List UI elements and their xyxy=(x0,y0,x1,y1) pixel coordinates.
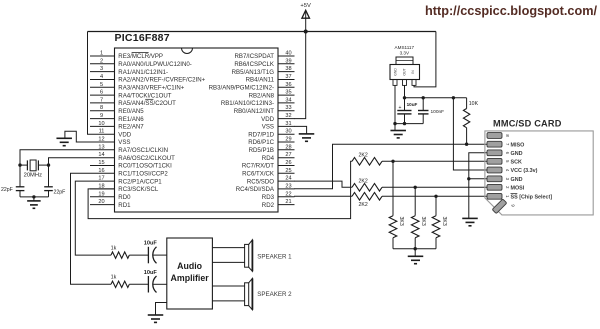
wire OSC1 pin 13 to crystal xyxy=(20,150,90,165)
svg-text:9: 9 xyxy=(511,204,516,207)
svg-text:39: 39 xyxy=(285,58,291,64)
svg-text:VDD: VDD xyxy=(118,131,131,138)
svg-text:2K2: 2K2 xyxy=(359,178,368,184)
svg-text:RC2/P1A/CCP1: RC2/P1A/CCP1 xyxy=(118,178,162,185)
U1 pin 30 (RD7/P1D) xyxy=(248,129,294,139)
U1 pin 36 (RB3/AN9/PGM/C12IN2-) xyxy=(209,82,295,92)
junction MOSI divider xyxy=(414,186,417,189)
svg-text:GND: GND xyxy=(394,68,398,76)
wire regulator OUT (3.3V node) xyxy=(404,85,406,110)
svg-text:Amplifier: Amplifier xyxy=(171,273,210,283)
svg-text:RB6/ICSPCLK: RB6/ICSPCLK xyxy=(234,61,274,68)
wire VSS pin 31 to ground xyxy=(294,126,307,133)
wire SDO pin 24 to MOSI divider xyxy=(294,181,352,187)
wire regulator GND to ground xyxy=(394,85,396,130)
wire SS (RD3 pin 22 to divider) xyxy=(294,195,352,197)
svg-text:24: 24 xyxy=(285,176,291,182)
U1 pin 11 (VDD) xyxy=(90,129,132,139)
audio amplifier A1 xyxy=(167,238,213,309)
svg-text:RB0/AN12/INT: RB0/AN12/INT xyxy=(234,108,275,115)
svg-text:3K3: 3K3 xyxy=(398,217,404,226)
U1 pin 18 (RC3/SCK/SCL) xyxy=(90,183,159,193)
wire crystal caps to ground xyxy=(20,196,49,198)
U1 pin 23 (RC4/SDI/SDA) xyxy=(236,183,295,193)
U1 pin 10 (RE2/AN7) xyxy=(90,121,144,131)
svg-text:100nF: 100nF xyxy=(431,109,445,115)
svg-text:RC7/RX/DT: RC7/RX/DT xyxy=(242,163,274,170)
U1 pin 12 (VSS) xyxy=(90,137,131,147)
J1 pad 8 xyxy=(487,133,510,139)
svg-text:10uF: 10uF xyxy=(144,270,158,276)
U1 pin 13 (RA7/OSC1/CLKIN) xyxy=(90,144,168,154)
svg-text:RE0/AN5: RE0/AN5 xyxy=(118,108,144,115)
svg-text:SCK: SCK xyxy=(511,159,522,165)
svg-text:40: 40 xyxy=(285,51,291,57)
junction MISO / 10K pull-up xyxy=(465,143,468,146)
svg-text:RC0/T1OSO/T1CKI: RC0/T1OSO/T1CKI xyxy=(118,163,172,170)
svg-text:6: 6 xyxy=(100,90,103,96)
svg-text:RD4: RD4 xyxy=(262,155,275,162)
svg-text:RA2/AN2/VREF-/CVREF/C2IN+: RA2/AN2/VREF-/CVREF/C2IN+ xyxy=(118,77,205,84)
microcontroller U1 PIC16F887 xyxy=(115,32,279,212)
svg-text:RA0/AN0/ULPWU/C12IN0-: RA0/AN0/ULPWU/C12IN0- xyxy=(118,61,192,68)
J1 pad 5 (SCK) xyxy=(487,158,522,165)
wire SCK (RC3 pin 18 around to divider) xyxy=(88,161,352,218)
svg-text:11: 11 xyxy=(99,129,105,135)
svg-text:33: 33 xyxy=(285,105,291,111)
U1 pin 25 (RC6/TX/CK) xyxy=(242,168,294,178)
svg-text:10: 10 xyxy=(98,121,104,127)
svg-text:VDD: VDD xyxy=(261,116,274,123)
U1 pin 20 (RD1) xyxy=(90,199,131,209)
svg-text:32: 32 xyxy=(285,113,291,119)
svg-text:GND: GND xyxy=(511,177,523,183)
svg-text:VSS: VSS xyxy=(118,139,130,146)
resistor R2 2K2 (SCK) xyxy=(352,152,487,165)
ground symbol (amp) xyxy=(148,314,164,316)
ground symbol (VSS pin 31) xyxy=(299,133,315,135)
U1 pin 21 (RD2) xyxy=(262,199,295,209)
capacitor C4 100nF xyxy=(418,98,444,124)
svg-text:RA6/OSC2/CLKOUT: RA6/OSC2/CLKOUT xyxy=(118,155,175,162)
junction 3.3V to card VCC xyxy=(452,96,455,99)
junction SS divider xyxy=(434,195,437,198)
svg-text:RB7/ICSPDAT: RB7/ICSPDAT xyxy=(234,53,274,60)
svg-text:3K3: 3K3 xyxy=(441,217,447,226)
svg-text:10uF: 10uF xyxy=(407,102,418,107)
U1 pin 35 (RB2/AN8) xyxy=(249,90,295,100)
svg-text:+5V: +5V xyxy=(300,3,311,9)
svg-text:RD7/P1D: RD7/P1D xyxy=(248,131,274,138)
capacitor C3 10uF xyxy=(397,102,417,124)
junction caps ground xyxy=(32,195,35,198)
svg-text:RC3/SCK/SCL: RC3/SCK/SCL xyxy=(118,186,159,193)
svg-text:SPEAKER 1: SPEAKER 1 xyxy=(257,253,292,260)
capacitor C2 22pF xyxy=(44,165,65,197)
svg-text:AMS1117: AMS1117 xyxy=(395,45,415,50)
wire amp ground xyxy=(156,303,167,316)
svg-text:7: 7 xyxy=(505,143,510,146)
resistor R7 3K3 (SS divider) xyxy=(432,196,447,248)
svg-text:RA4/T0CKI/C1OUT: RA4/T0CKI/C1OUT xyxy=(118,92,171,99)
svg-text:1: 1 xyxy=(100,51,103,57)
wire caps to regulator ground xyxy=(395,123,423,125)
wire CCP1 pin 17 to amp input 1 xyxy=(75,181,111,255)
svg-text:21: 21 xyxy=(285,199,291,205)
U1 pin 15 (RC0/T1OSO/T1CKI) xyxy=(90,160,172,170)
U1 pin 27 (RD4) xyxy=(262,152,295,162)
svg-text:SS [Chip Select]: SS [Chip Select] xyxy=(511,194,553,200)
svg-text:RA7/OSC1/CLKIN: RA7/OSC1/CLKIN xyxy=(118,147,168,154)
wire +5V rail down to VDD pin 32 xyxy=(294,32,306,119)
svg-text:20: 20 xyxy=(98,199,104,205)
U1 pin 34 (RB1/AN10/C12IN3-) xyxy=(221,97,295,107)
J1 pad 9 xyxy=(492,199,515,214)
J1 pad 6 (GND) xyxy=(487,150,523,157)
svg-text:RC1/T1OSI/CCP2: RC1/T1OSI/CCP2 xyxy=(118,171,168,178)
resistor R1 10K pull-up xyxy=(463,98,478,144)
U1 pin 9 (RE1/AN6) xyxy=(90,113,144,123)
svg-text:27: 27 xyxy=(285,152,291,158)
ground symbol (dividers) xyxy=(408,255,424,257)
crystal X1 20MHz xyxy=(20,160,49,179)
resistor R6 3K3 (MOSI divider) xyxy=(411,187,426,248)
wire card GND bus xyxy=(469,153,487,219)
svg-text:VCC (3.3v): VCC (3.3v) xyxy=(511,168,538,174)
svg-text:6: 6 xyxy=(505,152,510,155)
U1 pin 32 (VDD) xyxy=(261,113,294,123)
U1 pin 40 (RB7/ICSPDAT) xyxy=(234,51,294,61)
capacitor C5 10uF xyxy=(144,241,167,264)
svg-text:MISO: MISO xyxy=(511,142,525,148)
svg-text:1: 1 xyxy=(505,195,510,198)
J1 pad 1 (SS&#160;[Chip Select]) xyxy=(487,193,552,200)
svg-text:23: 23 xyxy=(285,183,291,189)
wire +5V rail to regulator IN xyxy=(414,32,436,87)
svg-text:4: 4 xyxy=(505,169,510,172)
junction +5V rail / VDD drop xyxy=(304,30,308,34)
U1 pin 31 (VSS) xyxy=(262,121,295,131)
U1 pin 22 (RD3) xyxy=(262,191,295,201)
wire MISO (card pad 7 to RC4/SDI pin 23) xyxy=(294,144,487,189)
svg-text:Audio: Audio xyxy=(177,261,203,271)
svg-text:OUT: OUT xyxy=(402,68,406,75)
svg-text:3: 3 xyxy=(505,178,510,181)
svg-text:RC6/TX/CK: RC6/TX/CK xyxy=(242,171,274,178)
junction C3 bottom xyxy=(403,122,406,125)
U1 pin 5 (RA3/AN3/VREF+/C1IN+) xyxy=(90,82,185,92)
J1 pad 7 (MISO) xyxy=(487,141,524,148)
svg-text:RA5/AN4/SS/C2OUT: RA5/AN4/SS/C2OUT xyxy=(118,100,176,107)
svg-text:RB5/AN13/T1G: RB5/AN13/T1G xyxy=(232,69,275,76)
svg-text:2K2: 2K2 xyxy=(359,202,368,208)
svg-text:PIC16F887: PIC16F887 xyxy=(115,32,170,44)
svg-text:30: 30 xyxy=(285,129,291,135)
svg-text:GND: GND xyxy=(511,151,523,157)
J1 pad 4 (VCC (3.3v)) xyxy=(487,167,538,174)
+5V supply symbol xyxy=(300,3,311,32)
wire divider grounds xyxy=(393,248,436,250)
svg-text:RD3: RD3 xyxy=(262,194,275,201)
svg-text:8: 8 xyxy=(505,134,510,137)
svg-text:RD0: RD0 xyxy=(118,194,131,201)
svg-text:RE2/AN7: RE2/AN7 xyxy=(118,124,144,131)
ground symbol (VSS pin 12) xyxy=(56,137,71,139)
resistor R4 2K2 (SS) xyxy=(352,193,487,209)
svg-text:MOSI: MOSI xyxy=(511,185,525,191)
svg-text:1k: 1k xyxy=(111,275,117,281)
svg-text:29: 29 xyxy=(285,137,291,143)
svg-text:19: 19 xyxy=(98,191,104,197)
U1 pin 26 (RC7/RX/DT) xyxy=(242,160,295,170)
U1 pin 38 (RB5/AN13/T1G) xyxy=(232,66,295,76)
wire 3.3V to card VCC pad 4 xyxy=(453,98,487,170)
U1 pin 3 (RA1/AN1/C12IN1-) xyxy=(90,66,168,76)
U1 pin 7 (RA5/AN4/SS/C2OUT) xyxy=(90,97,176,107)
U1 pin 37 (RB4/AN11) xyxy=(246,74,295,84)
svg-text:38: 38 xyxy=(285,66,291,72)
wire CCP2 pin 16 to amp input 2 xyxy=(71,173,112,284)
svg-text:MMC/SD CARD: MMC/SD CARD xyxy=(493,118,562,128)
svg-text:RD2: RD2 xyxy=(262,202,275,209)
U1 pin 19 (RD0) xyxy=(90,191,131,201)
junction crystal node OSC1 xyxy=(18,163,21,166)
svg-text:+: + xyxy=(399,105,402,111)
svg-text:RB4/AN11: RB4/AN11 xyxy=(246,77,275,84)
svg-text:7: 7 xyxy=(100,97,103,103)
wire VSS pin 12 to ground xyxy=(65,131,115,142)
wire OSC2 pin 14 to crystal xyxy=(49,158,91,165)
svg-text:RB1/AN10/C12IN3-: RB1/AN10/C12IN3- xyxy=(221,100,274,107)
svg-text:22: 22 xyxy=(285,191,291,197)
voltage regulator U2 AMS1117 3.3V xyxy=(390,45,420,85)
svg-text:RE3/MCLR/VPP: RE3/MCLR/VPP xyxy=(118,53,163,60)
junction card GND bus xyxy=(467,177,470,180)
svg-text:37: 37 xyxy=(285,74,291,80)
U1 pin 2 (RA0/AN0/ULPWU/C12IN0-) xyxy=(90,58,192,68)
SD card connector J1 MMC/SD CARD xyxy=(485,118,593,215)
svg-text:36: 36 xyxy=(285,82,291,88)
svg-text:10K: 10K xyxy=(469,101,479,107)
resistor R8 1k xyxy=(111,246,149,259)
junction GND wire xyxy=(393,122,396,125)
U1 pin 39 (RB6/ICSPCLK) xyxy=(234,58,294,68)
junction crystal node OSC2 xyxy=(47,163,50,166)
U1 pin 6 (RA4/T0CKI/C1OUT) xyxy=(90,90,172,100)
U1 pin 29 (RD6/P1C) xyxy=(248,137,294,147)
svg-text:RD1: RD1 xyxy=(118,202,131,209)
svg-text:RA1/AN1/C12IN1-: RA1/AN1/C12IN1- xyxy=(118,69,168,76)
svg-text:17: 17 xyxy=(98,176,104,182)
svg-text:15: 15 xyxy=(98,160,104,166)
svg-text:28: 28 xyxy=(285,144,291,150)
svg-text:3: 3 xyxy=(100,66,103,72)
resistor R3 2K2 (MOSI) xyxy=(352,178,487,191)
junction divider ground xyxy=(414,247,417,250)
svg-text:25: 25 xyxy=(285,168,291,174)
svg-text:SPEAKER 2: SPEAKER 2 xyxy=(257,291,292,298)
capacitor C6 10uF xyxy=(144,270,167,293)
U1 pin 1 (RE3/MCLR/VPP) xyxy=(90,51,163,61)
svg-text:VSS: VSS xyxy=(262,124,274,131)
U1 pin 8 (RE0/AN5) xyxy=(90,105,144,115)
svg-text:35: 35 xyxy=(285,90,291,96)
svg-text:2: 2 xyxy=(100,58,103,64)
svg-text:1k: 1k xyxy=(111,246,117,252)
ground symbol (card) xyxy=(462,217,478,219)
U1 pin 28 (RD5/P1B) xyxy=(249,144,295,154)
svg-text:http://ccspicc.blogspot.com/: http://ccspicc.blogspot.com/ xyxy=(425,4,597,18)
U1 pin 24 (RC5/SDO) xyxy=(247,176,295,186)
resistor R9 1k xyxy=(111,275,149,288)
speaker LS1 SPEAKER 1 xyxy=(212,240,292,271)
J1 pad 2 (MOSI) xyxy=(487,184,525,191)
speaker LS2 SPEAKER 2 xyxy=(212,278,292,309)
capacitor C1 22pF xyxy=(1,165,24,197)
svg-text:RA3/AN3/VREF+/C1IN+: RA3/AN3/VREF+/C1IN+ xyxy=(118,85,184,92)
ground symbol (crystal) xyxy=(27,200,41,202)
svg-text:RC5/SDO: RC5/SDO xyxy=(247,178,274,185)
junction 3.3V at C3 xyxy=(403,96,406,99)
svg-text:RB2/AN8: RB2/AN8 xyxy=(249,92,275,99)
U1 pin 16 (RC1/T1OSI/CCP2) xyxy=(90,168,168,178)
svg-text:3.3V: 3.3V xyxy=(400,51,410,56)
U1 pin 14 (RA6/OSC2/CLKOUT) xyxy=(90,152,175,162)
svg-text:RD6/P1C: RD6/P1C xyxy=(248,139,274,146)
svg-text:20MHz: 20MHz xyxy=(24,173,42,179)
svg-text:14: 14 xyxy=(98,152,104,158)
wire +5V rail xyxy=(88,31,436,33)
svg-text:RC4/SDI/SDA: RC4/SDI/SDA xyxy=(236,186,275,193)
svg-text:10uF: 10uF xyxy=(144,241,158,247)
svg-text:26: 26 xyxy=(285,160,291,166)
U1 pin 4 (RA2/AN2/VREF-/CVREF/C2IN+) xyxy=(90,74,206,84)
junction 3.3V at C4 xyxy=(422,96,425,99)
svg-text:2K2: 2K2 xyxy=(359,152,368,158)
svg-text:5: 5 xyxy=(505,160,510,163)
wire 3.3V rail xyxy=(405,97,467,99)
resistor R5 3K3 (SCK divider) xyxy=(389,161,404,248)
J1 pad 3 (GND) xyxy=(487,176,523,183)
junction SCK divider xyxy=(391,160,394,163)
svg-text:RB3/AN9/PGM/C12IN2-: RB3/AN9/PGM/C12IN2- xyxy=(209,85,274,92)
svg-text:5: 5 xyxy=(100,82,103,88)
svg-text:22pF: 22pF xyxy=(1,187,13,193)
svg-text:13: 13 xyxy=(98,144,104,150)
svg-text:31: 31 xyxy=(285,121,291,127)
svg-text:2: 2 xyxy=(505,186,510,189)
U1 pin 33 (RB0/AN12/INT) xyxy=(234,105,295,115)
ground symbol (regulator) xyxy=(390,130,406,132)
wire +5V rail to VDD pin 11 xyxy=(88,32,91,135)
svg-text:22pF: 22pF xyxy=(54,190,66,196)
svg-text:16: 16 xyxy=(98,168,104,174)
svg-text:9: 9 xyxy=(100,113,103,119)
svg-text:4: 4 xyxy=(100,74,103,80)
U1 pin 17 (RC2/P1A/CCP1) xyxy=(90,176,162,186)
svg-text:IN: IN xyxy=(411,70,415,74)
svg-text:RD5/P1B: RD5/P1B xyxy=(249,147,274,154)
svg-text:8: 8 xyxy=(100,105,103,111)
svg-text:3K3: 3K3 xyxy=(420,217,426,226)
svg-text:34: 34 xyxy=(285,97,291,103)
svg-text:RE1/AN6: RE1/AN6 xyxy=(118,116,144,123)
